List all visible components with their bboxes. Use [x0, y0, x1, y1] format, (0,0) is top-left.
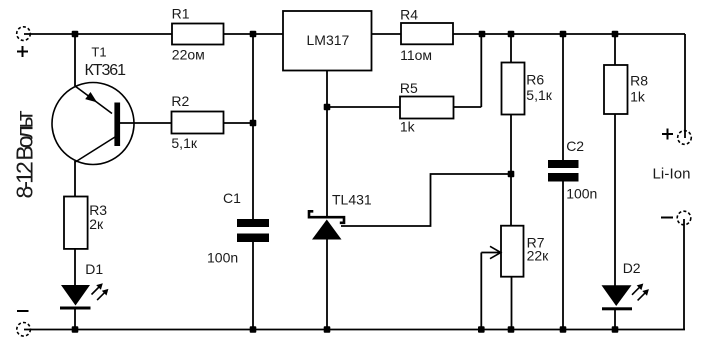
svg-text:LM317: LM317 [307, 32, 350, 48]
svg-text:D1: D1 [85, 261, 103, 277]
svg-text:T1: T1 [91, 45, 106, 60]
svg-text:1k: 1k [400, 119, 416, 135]
svg-text:22к: 22к [527, 248, 550, 264]
svg-text:2к: 2к [89, 216, 104, 232]
svg-text:R6: R6 [526, 72, 544, 88]
svg-text:5,1к: 5,1к [171, 135, 197, 151]
svg-text:R4: R4 [400, 7, 418, 23]
svg-text:КТ361: КТ361 [85, 62, 127, 79]
svg-text:11ом: 11ом [400, 47, 432, 63]
svg-text:100n: 100n [566, 186, 597, 202]
svg-text:R1: R1 [172, 6, 190, 22]
svg-text:1k: 1k [630, 89, 646, 105]
svg-text:D2: D2 [623, 260, 641, 276]
svg-text:R5: R5 [400, 80, 418, 96]
svg-text:C1: C1 [223, 190, 241, 206]
svg-text:8-12 Вольт: 8-12 Вольт [12, 110, 38, 198]
svg-text:R8: R8 [630, 73, 648, 89]
svg-text:22ом: 22ом [172, 47, 205, 63]
svg-text:100n: 100n [207, 250, 238, 266]
svg-text:Li-Ion: Li-Ion [653, 166, 691, 183]
svg-text:R2: R2 [171, 93, 189, 109]
svg-text:TL431: TL431 [332, 192, 372, 208]
svg-text:5,1к: 5,1к [526, 87, 552, 103]
svg-text:C2: C2 [566, 138, 584, 154]
